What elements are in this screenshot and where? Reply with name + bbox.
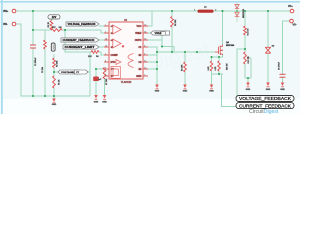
svg-text:MBR20100: MBR20100 xyxy=(243,9,245,18)
background sheet xyxy=(0,0,300,114)
svg-text:2: 2 xyxy=(105,31,106,33)
svg-text:3: 3 xyxy=(105,53,106,55)
diode D2 tvs xyxy=(265,47,270,53)
resistor R2 4R7 horizontal xyxy=(51,29,62,32)
wire gate pulldown column x185 xyxy=(184,52,186,62)
svg-text:VO+: VO+ xyxy=(288,6,293,8)
svg-text:VIN+: VIN+ xyxy=(3,11,9,13)
svg-text:2: 2 xyxy=(215,9,216,11)
svg-text:11: 11 xyxy=(144,60,146,62)
resistor R5 divider bottom x54 xyxy=(53,76,56,88)
svg-text:VCC: VCC xyxy=(136,25,141,28)
ground (output cap) xyxy=(280,83,285,91)
svg-text:CURRENT_FEEDBACK: CURRENT_FEEDBACK xyxy=(239,103,291,108)
transistor Q4 mosfet xyxy=(215,45,223,56)
wire mosfet source to shunt xyxy=(222,54,224,57)
svg-text:R1 1K: R1 1K xyxy=(48,22,50,28)
wire shunt ground stub xyxy=(211,74,213,84)
net label VOLTAGE_FEEDBACK xyxy=(236,96,294,102)
svg-text:14: 14 xyxy=(144,30,146,33)
wire VIN- down left column xyxy=(17,24,22,96)
svg-text:R14 10K: R14 10K xyxy=(247,28,250,36)
wire resistor column x45 xyxy=(44,30,46,40)
resistor R11 shunt b xyxy=(218,61,221,71)
svg-text:10: 10 xyxy=(144,67,146,69)
svg-text:VOLTAGE_FEEDBACK: VOLTAGE_FEEDBACK xyxy=(239,96,291,101)
ground (E1 E2 bus) xyxy=(155,85,160,93)
svg-text:CURRENT_LIMIT: CURRENT_LIMIT xyxy=(65,46,96,49)
svg-text:COMP: COMP xyxy=(111,54,119,57)
svg-text:R7 10K: R7 10K xyxy=(106,78,108,85)
wire tag stub pin +1 xyxy=(99,25,104,27)
net tag VOLTAGE_FEEDBACK (pin 1) xyxy=(66,22,99,26)
svg-text:GND: GND xyxy=(246,89,251,91)
resistor R3 x45 xyxy=(44,40,47,49)
sheet left margin stripe xyxy=(1,0,3,114)
resistor R7 timing xyxy=(103,68,106,80)
op-amp U1 pin names xyxy=(111,25,143,78)
net label 12V xyxy=(48,15,60,19)
wire zener column x268 xyxy=(267,11,269,47)
wire voltage feedback tap xyxy=(237,49,245,96)
wire current feedback tap xyxy=(222,74,237,107)
svg-text:RV2 10K: RV2 10K xyxy=(248,56,250,64)
wire 12V label stem xyxy=(51,19,53,21)
connector VO- xyxy=(290,19,297,26)
net tag CURRENT_LIMIT (pin 15) xyxy=(63,45,99,49)
wire output divider column x245 xyxy=(244,11,246,26)
svg-text:R5 1K: R5 1K xyxy=(59,79,61,85)
svg-text:IRFP240: IRFP240 xyxy=(226,44,235,47)
net tag CURRENT_FEEDBACK (pin 16) xyxy=(61,38,99,42)
op-amp U1 internal node diamond xyxy=(122,45,125,48)
svg-text:CURRENT_FEEDBACK: CURRENT_FEEDBACK xyxy=(63,39,95,42)
resistor R1 (below 12V label) xyxy=(50,21,53,31)
capacitor C9 output xyxy=(280,74,286,77)
op-amp U1 internal error amp 1 xyxy=(113,25,121,34)
op-amp U1 pin stubs left xyxy=(104,26,109,76)
resistor R10 shunt a xyxy=(210,61,213,71)
op-amp U1 internal output transistor 2 xyxy=(128,61,134,68)
svg-text:R8 10K: R8 10K xyxy=(175,19,177,26)
connector VIN+ xyxy=(3,9,16,13)
svg-text:VO-: VO- xyxy=(293,25,297,27)
resistor R14 divider xyxy=(244,26,247,35)
op-amp U1 TL494 body xyxy=(109,19,143,84)
resistor R6 COMP xyxy=(91,51,99,54)
wire mosfet drain riser xyxy=(222,11,224,45)
capacitor C3 timing (filled) xyxy=(93,77,102,82)
ground (x54 bottom) xyxy=(52,99,57,106)
svg-text:GND: GND xyxy=(94,101,99,103)
svg-text:1: 1 xyxy=(194,9,195,11)
svg-text:GND: GND xyxy=(280,89,285,91)
op-amp U1 internal dtc amp xyxy=(116,60,121,65)
svg-text:12V: 12V xyxy=(52,15,57,19)
capacitor C1 input xyxy=(30,45,36,48)
resistor R9 gate pull-down xyxy=(184,62,187,72)
svg-text:GND: GND xyxy=(102,101,107,103)
svg-text:D2: D2 xyxy=(272,46,274,48)
wire x65 branch down xyxy=(64,30,66,52)
wire shunt top bar xyxy=(212,56,223,58)
wire pot wiper loop xyxy=(245,58,251,78)
svg-text:9: 9 xyxy=(144,53,145,55)
svg-text:C9 470uF: C9 470uF xyxy=(278,61,281,70)
svg-text:12: 12 xyxy=(144,24,146,26)
ground (pot) xyxy=(246,83,251,91)
svg-text:VOLTAGE_FEEDBACK: VOLTAGE_FEEDBACK xyxy=(68,23,96,26)
svg-text:GND: GND xyxy=(52,104,57,106)
ground (timing resistor) xyxy=(102,95,107,103)
ground (timing cap) xyxy=(94,95,99,103)
wire bottom rail xyxy=(21,95,90,97)
svg-text:R9 10K: R9 10K xyxy=(182,64,184,71)
wire C1 E1 C2 E2 bus x157 xyxy=(148,47,157,85)
svg-text:C1 100uF: C1 100uF xyxy=(35,57,37,66)
svg-text:TL494CN: TL494CN xyxy=(121,81,132,84)
svg-text:7: 7 xyxy=(144,74,145,76)
wire top rail VIN+ to VO+ xyxy=(17,10,291,12)
wire pot bottom ground stub xyxy=(247,78,249,82)
wire VREF tag stub xyxy=(148,32,151,34)
op-amp U1 internal flip-flop box xyxy=(111,66,120,78)
net tag CT xyxy=(75,70,89,74)
svg-text:6: 6 xyxy=(105,74,106,76)
inductor L1 xyxy=(194,6,216,12)
svg-text:DTC: DTC xyxy=(111,61,116,64)
wire tag stub pin +2 xyxy=(99,39,104,41)
wire VCC riser to rail xyxy=(148,11,152,26)
wire y52 to COMP xyxy=(65,51,91,53)
connector VO+ xyxy=(288,6,294,13)
svg-text:4: 4 xyxy=(105,59,106,62)
wire input cap column x33 xyxy=(32,11,34,45)
wire VO- return column x283 xyxy=(283,21,290,74)
svg-text:5: 5 xyxy=(105,67,106,69)
footer white band xyxy=(3,99,300,114)
svg-text:GND: GND xyxy=(136,75,142,78)
wire OUTC down xyxy=(148,39,162,41)
wire shunt bottom bar xyxy=(212,73,223,75)
logo CircuitDigest xyxy=(249,109,279,115)
wire CT pin to timing cap xyxy=(96,68,104,70)
wire tag stub pin -2 xyxy=(99,46,104,48)
net tag x54 node (long) xyxy=(58,70,80,74)
svg-text:8: 8 xyxy=(144,45,145,47)
wire x84 to bottom rail xyxy=(89,53,91,97)
svg-text:16: 16 xyxy=(105,38,107,40)
op-amp U1 internal error amp 2 xyxy=(113,39,121,48)
ground (shunt) xyxy=(209,85,214,93)
svg-text:VREF: VREF xyxy=(135,32,142,35)
op-amp U1 internal output transistor 1 xyxy=(128,54,134,61)
net label CURRENT_FEEDBACK xyxy=(236,103,294,109)
net tag VREF xyxy=(151,31,170,35)
resistor R8 gate pull-up xyxy=(171,17,174,28)
sheet top border line xyxy=(0,1,300,3)
svg-text:R4 10K: R4 10K xyxy=(56,60,59,67)
wire tag stub x54 node xyxy=(54,71,58,73)
svg-text:VIN-: VIN- xyxy=(3,24,8,26)
svg-text:C2 104: C2 104 xyxy=(41,66,44,73)
svg-text:1: 1 xyxy=(105,24,106,26)
resistor R4 divider top x54 xyxy=(53,58,56,68)
svg-text:OUTC: OUTC xyxy=(135,39,142,42)
svg-text:15: 15 xyxy=(105,45,107,47)
ground (tvs) xyxy=(266,83,271,91)
svg-text:R10 5W: R10 5W xyxy=(227,63,229,70)
svg-text:GND: GND xyxy=(266,89,271,91)
wire gate drive line y52 xyxy=(157,51,215,53)
wire feedback divider column x54 xyxy=(53,55,55,59)
svg-text:GND: GND xyxy=(209,91,214,93)
ground (gate pull-down) xyxy=(183,85,188,93)
svg-text:13: 13 xyxy=(144,38,146,40)
svg-text:GND: GND xyxy=(155,91,160,93)
potentiometer RV2 output adjust xyxy=(244,52,247,64)
diode D1 dual schottky xyxy=(235,3,239,22)
connector VIN- xyxy=(3,22,16,26)
svg-text:10K: 10K xyxy=(88,56,92,58)
wire RT resistor to ground xyxy=(104,79,106,95)
potentiometer RV1 (dark box) xyxy=(51,43,55,51)
svg-text:1W: 1W xyxy=(59,27,62,29)
svg-text:GND: GND xyxy=(183,91,188,93)
wire y30 branch to -1 pin xyxy=(33,29,51,31)
svg-text:VREF: VREF xyxy=(155,31,162,35)
op-amp U1 pin numbers xyxy=(105,24,146,76)
wire gate pullup column x172 xyxy=(171,11,173,17)
op-amp U1 pin stubs right xyxy=(143,26,148,76)
svg-text:CircuitDigest: CircuitDigest xyxy=(249,109,279,114)
